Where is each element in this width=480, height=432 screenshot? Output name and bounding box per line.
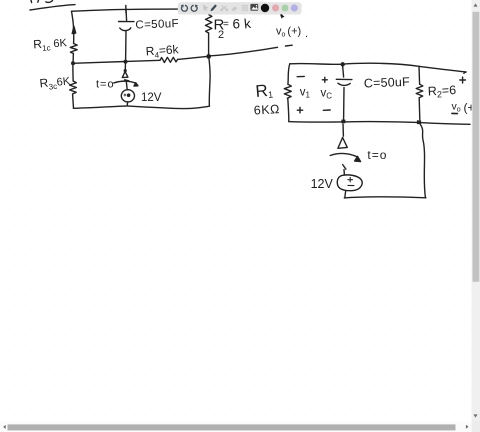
svg-text:C=50uF: C=50uF xyxy=(135,18,179,32)
svg-text:vo: vo xyxy=(452,101,461,114)
svg-text:2: 2 xyxy=(218,29,224,41)
svg-text:6KΩ: 6KΩ xyxy=(253,102,280,117)
svg-text:.: . xyxy=(305,28,308,40)
svg-text:R4=6k: R4=6k xyxy=(145,42,180,60)
svg-text:R3c6K: R3c6K xyxy=(39,73,72,92)
svg-text:12V: 12V xyxy=(141,92,162,104)
svg-text:12V: 12V xyxy=(311,177,334,191)
svg-text:R1: R1 xyxy=(255,81,274,101)
svg-text:t=o: t=o xyxy=(367,148,387,162)
svg-text:k: k xyxy=(243,16,252,32)
svg-text:R1c 6K: R1c 6K xyxy=(33,35,68,53)
svg-text:R2=6: R2=6 xyxy=(427,83,456,100)
svg-text:6: 6 xyxy=(233,17,241,32)
svg-text:C=50uF: C=50uF xyxy=(364,75,411,91)
svg-text:v1: v1 xyxy=(300,87,311,100)
svg-text:vC: vC xyxy=(321,88,333,101)
svg-text:t=o: t=o xyxy=(96,79,115,91)
svg-text:vo(+): vo(+) xyxy=(276,26,301,39)
